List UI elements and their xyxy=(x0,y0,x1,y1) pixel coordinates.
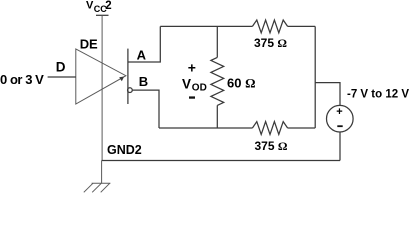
wire source to GND2 xyxy=(339,132,341,161)
wire right vertical xyxy=(314,26,316,128)
svg-text:+: + xyxy=(188,59,196,75)
wire VCC2 stem xyxy=(101,15,103,160)
svg-text:-7 V to 12 V: -7 V to 12 V xyxy=(347,88,409,100)
wire A xyxy=(128,26,160,62)
resistor R1 375 ohm top xyxy=(252,20,287,33)
wire ground stem xyxy=(101,161,103,184)
wire D input xyxy=(48,76,76,78)
svg-text:V: V xyxy=(182,76,191,91)
wire B xyxy=(132,90,159,128)
wire top rail right xyxy=(288,25,316,27)
wire top rail xyxy=(160,25,252,27)
svg-text:2: 2 xyxy=(105,0,111,12)
label VOD xyxy=(182,76,207,93)
svg-text:60 Ω: 60 Ω xyxy=(227,76,256,91)
label source minus xyxy=(337,125,342,127)
svg-text:375 Ω: 375 Ω xyxy=(254,36,287,50)
svg-text:+: + xyxy=(336,106,342,118)
svg-text:A: A xyxy=(137,48,147,63)
wire 60 ohm bottom lead xyxy=(216,105,218,128)
svg-text:D: D xyxy=(56,60,66,75)
inversion bubble xyxy=(128,88,133,93)
wire output stub xyxy=(127,49,129,104)
svg-text:OD: OD xyxy=(192,83,207,94)
voltage source V1 xyxy=(327,105,354,132)
svg-text:375 Ω: 375 Ω xyxy=(255,139,288,153)
svg-text:V: V xyxy=(86,0,94,11)
svg-text:DE: DE xyxy=(80,36,98,51)
svg-text:GND2: GND2 xyxy=(107,143,142,157)
svg-text:0 or 3 V: 0 or 3 V xyxy=(0,72,44,87)
label VCC2 xyxy=(86,0,112,14)
driver U1 triangle xyxy=(76,49,126,104)
wire bottom rail right xyxy=(288,127,316,129)
resistor R2 375 ohm bottom xyxy=(252,122,287,135)
svg-text:B: B xyxy=(139,74,148,89)
power rail VCC2 bar xyxy=(96,14,109,16)
enable arrow DE xyxy=(119,77,124,82)
wire 60 ohm top lead xyxy=(216,26,218,57)
ground symbol xyxy=(84,183,111,192)
wire source tap xyxy=(315,83,340,106)
wire bottom rail xyxy=(159,127,252,129)
resistor R3 60 ohm xyxy=(211,57,224,105)
wire GND2 rail xyxy=(102,160,340,162)
label VOD minus xyxy=(189,96,195,98)
